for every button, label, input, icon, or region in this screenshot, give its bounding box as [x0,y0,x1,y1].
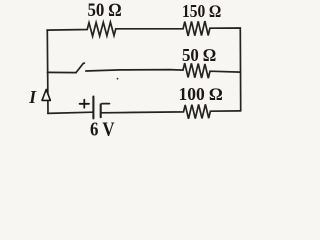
svg-text:6 V: 6 V [90,119,115,138]
svg-text:50 Ω: 50 Ω [182,45,216,65]
svg-text:150 Ω: 150 Ω [182,1,221,21]
svg-text:100 Ω: 100 Ω [179,84,223,104]
svg-text:50 Ω: 50 Ω [88,1,122,21]
svg-text:I: I [28,87,37,107]
